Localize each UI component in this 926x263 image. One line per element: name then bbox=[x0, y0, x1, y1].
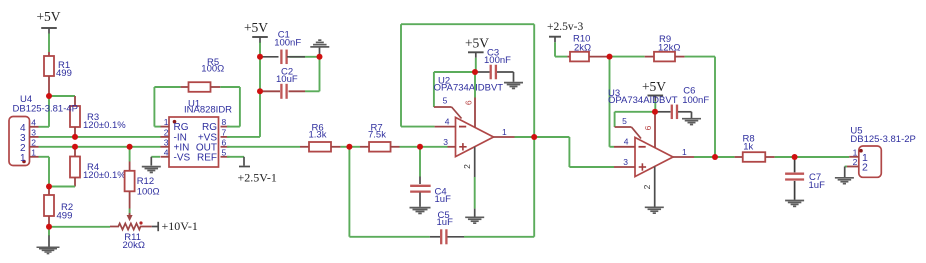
U4 pin 4 bbox=[20, 117, 39, 134]
svg-text:R12: R12 bbox=[137, 176, 154, 187]
U5 pin 1 marker dot bbox=[859, 149, 863, 153]
svg-text:3: 3 bbox=[164, 137, 169, 147]
resistor R4 bbox=[70, 147, 126, 187]
svg-text:2: 2 bbox=[462, 164, 472, 169]
ground (C4) bbox=[410, 208, 431, 214]
svg-text:6: 6 bbox=[464, 100, 474, 105]
U1 pin 8 RG bbox=[202, 117, 230, 133]
svg-text:100Ω: 100Ω bbox=[137, 187, 160, 198]
svg-text:4: 4 bbox=[31, 117, 36, 127]
svg-text:3: 3 bbox=[31, 127, 36, 137]
svg-text:120±0.1%: 120±0.1% bbox=[83, 170, 126, 181]
power +5V (net, top-left) bbox=[36, 9, 60, 34]
capacitor C6 100nF bbox=[655, 85, 709, 119]
U2 minus sign bbox=[459, 126, 466, 128]
wire node to pin5 drop bbox=[434, 72, 475, 107]
ground (bottom-left) bbox=[37, 227, 60, 254]
svg-text:100Ω: 100Ω bbox=[201, 64, 224, 75]
svg-text:1uF: 1uF bbox=[809, 180, 826, 191]
op-amp U2 OPA734AIDBVT bbox=[434, 75, 504, 156]
svg-text:2: 2 bbox=[853, 157, 858, 167]
svg-text:1uF: 1uF bbox=[435, 194, 452, 205]
ground (U2 pin2) bbox=[465, 217, 484, 223]
node junction R10/R9/pin4 bbox=[607, 54, 613, 60]
wire node down to U3 pin4 bbox=[610, 57, 615, 147]
U1 pin 7 +VS bbox=[198, 127, 230, 143]
U1 pin 4 -VS bbox=[161, 147, 191, 163]
svg-text:2: 2 bbox=[642, 184, 652, 189]
node junction +5V/C6/U3 pins bbox=[652, 109, 658, 115]
capacitor C3 100nF bbox=[475, 47, 514, 79]
wire C5 to U2 out bbox=[464, 137, 534, 237]
svg-text:1: 1 bbox=[164, 117, 169, 127]
svg-text:+2.5V-1: +2.5V-1 bbox=[238, 171, 277, 185]
U2 pin 3 (+) bbox=[443, 137, 455, 147]
node junction rail/C2 bbox=[257, 88, 263, 94]
svg-text:10uF: 10uF bbox=[276, 74, 298, 85]
power +5V (C1/C2 rail) bbox=[244, 20, 268, 43]
ground (C7) bbox=[785, 201, 804, 207]
wire U4.3 to U1.-IN bbox=[39, 136, 161, 138]
connector U5 DB125-3.81-2P bbox=[850, 126, 915, 178]
svg-text:6: 6 bbox=[643, 125, 653, 130]
wire U2 out to U3 +in bbox=[534, 137, 614, 167]
ground (U3 pin2) bbox=[645, 207, 664, 213]
U2 plus sign bbox=[459, 143, 466, 150]
ground (C3) bbox=[504, 72, 523, 88]
ground (above C1, flipped earth) bbox=[310, 40, 329, 57]
wire C5 branch down bbox=[349, 147, 429, 237]
U4 pin 1 marker dot bbox=[22, 160, 26, 164]
wire R6 to node bbox=[341, 146, 350, 148]
capacitor C2 10uF bbox=[260, 67, 320, 99]
svg-text:1: 1 bbox=[502, 127, 507, 137]
power +5V (U3) bbox=[642, 79, 666, 101]
svg-text:1: 1 bbox=[31, 147, 36, 157]
U1 pin 6 OUT bbox=[196, 137, 230, 153]
U1 pin 1 marker dot bbox=[173, 120, 177, 124]
feedback loop U2 (pin4) bbox=[401, 24, 534, 137]
wire R8 to C7 node bbox=[775, 156, 795, 158]
potentiometer R11 20k bbox=[110, 209, 152, 252]
node junction U3 out bbox=[712, 154, 718, 160]
svg-text:4: 4 bbox=[164, 147, 169, 157]
svg-text:4: 4 bbox=[445, 116, 450, 126]
U3 plus sign bbox=[639, 163, 646, 170]
svg-text:1: 1 bbox=[682, 147, 687, 157]
node junction U2 out bbox=[531, 134, 537, 140]
node junction R7/C4/+in bbox=[417, 144, 423, 150]
U2 pin 6 (V+) bbox=[464, 72, 475, 128]
op-amp U1 INA828IDR box bbox=[169, 98, 232, 167]
wire node to U5 pin1 bbox=[795, 156, 850, 158]
wire U4.1 down bbox=[39, 157, 50, 187]
U5 pin 2 bbox=[847, 157, 868, 174]
resistor R12 bbox=[125, 147, 160, 209]
wire +5V U3 stub bbox=[654, 101, 656, 112]
wire R2 node to R11 bbox=[49, 226, 110, 228]
capacitor C1 100nF bbox=[260, 30, 320, 65]
net label +2.5v-3 bbox=[547, 21, 583, 42]
U3 pin 6 (V+) bbox=[643, 112, 655, 148]
svg-text:20kΩ: 20kΩ bbox=[123, 240, 145, 251]
node junction C1/earth bbox=[317, 54, 323, 60]
svg-text:OPA734AIDBVT: OPA734AIDBVT bbox=[434, 82, 504, 93]
svg-text:5: 5 bbox=[622, 116, 627, 126]
svg-text:+5V: +5V bbox=[642, 79, 666, 94]
svg-text:2: 2 bbox=[862, 162, 868, 174]
node junction U4.1/R4/R2 bbox=[46, 184, 52, 190]
svg-text:1.3k: 1.3k bbox=[309, 130, 327, 141]
node junction R2/R11/GND bbox=[46, 224, 52, 230]
U1 pin 2 -IN bbox=[161, 127, 187, 143]
svg-text:8: 8 bbox=[222, 117, 227, 127]
U3 pin 4 (-) bbox=[614, 137, 635, 147]
wire R7 to C4 node bbox=[400, 146, 421, 148]
resistor R9 12k bbox=[610, 34, 716, 61]
node junction rail/C1 bbox=[257, 54, 263, 60]
svg-text:3: 3 bbox=[443, 137, 448, 147]
U5 pin 1 bbox=[849, 147, 868, 164]
svg-text:REF: REF bbox=[197, 152, 217, 163]
svg-text:1uF: 1uF bbox=[437, 217, 454, 228]
capacitor C5 1uF bbox=[430, 210, 464, 244]
resistor R10 2k bbox=[567, 33, 609, 61]
capacitor C4 1uF bbox=[410, 147, 451, 207]
wire +5V to U2 node bbox=[475, 58, 477, 72]
U3 pin 2 (V-) bbox=[642, 167, 655, 207]
U3 pin 1 (out) bbox=[673, 147, 715, 157]
svg-text:+5V: +5V bbox=[36, 9, 60, 24]
node junction R1/R3/U4.4 bbox=[46, 93, 52, 99]
node junction R3/-IN wire bbox=[72, 134, 78, 140]
wire U5 pin2 to ground bbox=[845, 167, 847, 178]
U1 pin 1 RG bbox=[161, 117, 189, 133]
U2 pin 1 (out) bbox=[494, 127, 535, 137]
svg-text:2kΩ: 2kΩ bbox=[574, 42, 591, 53]
power +5V (U2) bbox=[465, 36, 489, 58]
ground (U5 pin2) bbox=[835, 178, 854, 184]
U3 minus sign bbox=[639, 146, 646, 148]
wire R9 loop down bbox=[714, 57, 716, 157]
svg-text:100nF: 100nF bbox=[682, 95, 709, 106]
U2 pin 4 (-) bbox=[435, 116, 456, 126]
U4 pin 1 bbox=[20, 147, 39, 164]
resistor R8 1k bbox=[735, 134, 775, 162]
wire R4 bottom to node bbox=[49, 186, 75, 188]
svg-text:2: 2 bbox=[164, 127, 169, 137]
wire OUT to R6 bbox=[227, 146, 300, 148]
wire node to R3 bbox=[49, 95, 75, 97]
wire +2.5v-3 to R10 bbox=[555, 42, 567, 56]
U2 pin 2 (V-) bbox=[462, 147, 475, 217]
wire RG loop left bbox=[154, 87, 169, 127]
svg-text:1: 1 bbox=[20, 153, 26, 164]
wire U4.2 to U1.+IN bbox=[39, 146, 161, 148]
wire +VS to +5V rail bbox=[227, 42, 260, 137]
U2 pin 5 bbox=[434, 96, 462, 119]
wire +5V to R1 bbox=[48, 34, 50, 53]
resistor R1 bbox=[44, 52, 72, 96]
svg-text:7: 7 bbox=[222, 127, 227, 137]
U1 pin 5 REF bbox=[197, 147, 230, 163]
net label +2.5V-1 (REF) bbox=[227, 157, 277, 185]
svg-text:5: 5 bbox=[222, 147, 227, 157]
U3 pin 5 bbox=[615, 116, 641, 139]
resistor R3 bbox=[70, 96, 126, 137]
U3 pin 3 (+) bbox=[614, 157, 635, 167]
svg-text:+2.5v-3: +2.5v-3 bbox=[547, 21, 583, 33]
node junction R6/R7/C5 bbox=[346, 144, 352, 150]
U4 pin 3 bbox=[20, 127, 39, 144]
ground (C6) bbox=[682, 112, 701, 125]
U4 pin 2 bbox=[20, 137, 39, 154]
svg-text:1: 1 bbox=[853, 147, 858, 157]
svg-text:100nF: 100nF bbox=[274, 37, 301, 48]
wire node to U2 +in bbox=[420, 146, 448, 148]
svg-text:INA828IDR: INA828IDR bbox=[184, 105, 232, 116]
svg-text:+10V-1: +10V-1 bbox=[162, 219, 198, 233]
wire C2 to C1 right rail bbox=[319, 57, 321, 92]
svg-text:+5V: +5V bbox=[244, 20, 268, 35]
svg-text:6: 6 bbox=[222, 137, 227, 147]
svg-text:100nF: 100nF bbox=[484, 55, 511, 66]
svg-text:499: 499 bbox=[56, 68, 72, 79]
connector U4 DB125-3.81-4P bbox=[9, 94, 78, 166]
ground (U1 -VS) bbox=[142, 157, 161, 173]
svg-text:DB125-3.81-4P: DB125-3.81-4P bbox=[13, 104, 78, 115]
svg-text:12kΩ: 12kΩ bbox=[658, 43, 680, 54]
wire RG loop right bbox=[227, 87, 240, 127]
resistor R7 7.5k bbox=[349, 123, 399, 152]
node junction R4 top bbox=[72, 144, 78, 150]
svg-text:120±0.1%: 120±0.1% bbox=[83, 120, 126, 131]
wire node down to U4 pin4 bbox=[39, 96, 50, 127]
svg-text:DB125-3.81-2P: DB125-3.81-2P bbox=[850, 134, 915, 145]
svg-text:3: 3 bbox=[623, 157, 628, 167]
svg-text:-VS: -VS bbox=[174, 152, 191, 163]
resistor R6 1.3k bbox=[300, 123, 341, 152]
net label +10V-1 bbox=[152, 219, 198, 233]
svg-text:5: 5 bbox=[443, 96, 448, 106]
svg-text:7.5k: 7.5k bbox=[368, 130, 386, 141]
U1 pin 3 +IN bbox=[161, 137, 190, 153]
wire node to U3 pin5 drop bbox=[615, 112, 655, 127]
node junction R8/C7/U5 bbox=[792, 154, 798, 160]
wire U3 out to R8 bbox=[715, 156, 735, 158]
svg-text:2: 2 bbox=[31, 137, 36, 147]
node junction +IN/R12 bbox=[127, 144, 133, 150]
op-amp U3 OPA734AIDBVT bbox=[608, 88, 678, 177]
svg-text:OPA734AIDBVT: OPA734AIDBVT bbox=[608, 95, 678, 106]
svg-text:+5V: +5V bbox=[465, 36, 489, 51]
svg-text:499: 499 bbox=[57, 210, 73, 221]
resistor R2 bbox=[44, 187, 73, 227]
svg-text:4: 4 bbox=[624, 137, 629, 147]
capacitor C7 1uF bbox=[785, 157, 825, 200]
svg-text:1k: 1k bbox=[743, 141, 753, 152]
node junction +5V/C3/pin5/pin6 bbox=[472, 69, 478, 75]
resistor R5 100 bbox=[154, 57, 240, 92]
